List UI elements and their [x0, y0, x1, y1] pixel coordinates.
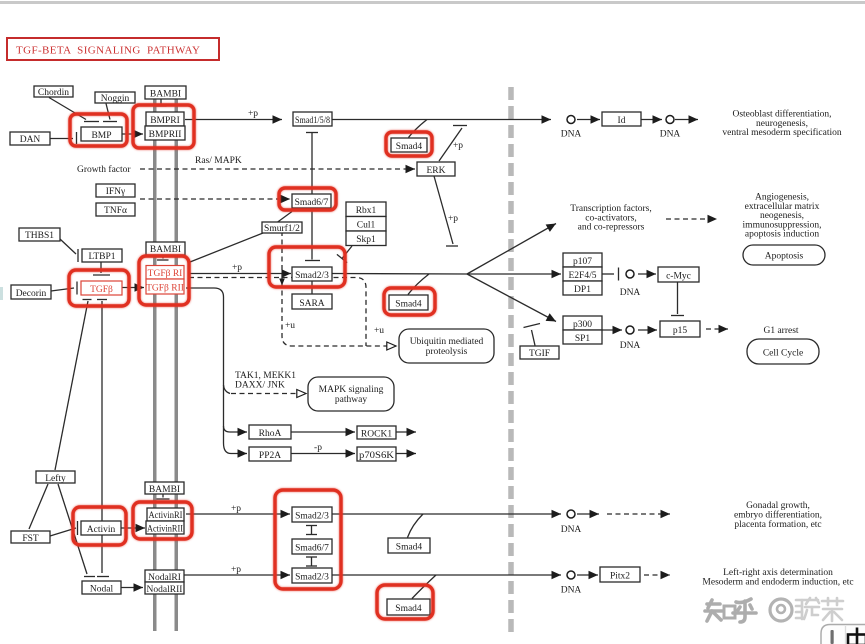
svg-text:Noggin: Noggin: [101, 94, 130, 104]
T-bar FST to Activin: [50, 528, 76, 536]
curve Smad4 joins gonadal wire: [408, 514, 424, 538]
gene LTBP1: [82, 249, 122, 262]
top gray rule: [0, 1, 865, 4]
wire Smad1/5/8 to DNA: [332, 119, 551, 121]
svg-text:SARA: SARA: [299, 299, 324, 309]
wire BMP to BMPRII: [122, 133, 143, 135]
svg-text:pathway: pathway: [335, 395, 367, 405]
watermark at sign: [770, 599, 792, 621]
svg-text:Rbx1: Rbx1: [356, 206, 377, 216]
dashed TAK1 to MAPK pathway: [231, 393, 306, 395]
svg-text:Lefty: Lefty: [45, 473, 66, 484]
gene Smurf1/2: [262, 222, 302, 233]
svg-text:p15: p15: [673, 326, 688, 336]
svg-text:p300: p300: [573, 320, 592, 330]
gene Activin: [81, 521, 121, 535]
gene Smad4 top: [391, 138, 427, 152]
dashed IFN/TNF to Smad6/7: [140, 198, 290, 200]
wire fan to E2F4/5: [467, 273, 561, 275]
gene THBS1: [19, 228, 60, 241]
wire TGFb down to Nodal T-bar: [101, 301, 103, 573]
svg-text:-p: -p: [314, 443, 322, 453]
DNA circle 1: [567, 116, 575, 124]
highlight box TGFbRI/RII: [139, 256, 189, 305]
gene Smad6/7 lower: [292, 539, 332, 554]
watermark zhi char: [705, 600, 735, 621]
svg-text:TGFβ RI: TGFβ RI: [148, 269, 183, 279]
dashed arrow after Pitx2: [644, 574, 670, 576]
T-bar BAMBI top stub: [160, 99, 162, 105]
T-bar LTBP1 to TGFb: [100, 262, 102, 273]
highlight box Smad2/3 mid: [269, 247, 345, 287]
svg-text:Mesoderm and endoderm inductio: Mesoderm and endoderm induction, etc: [702, 578, 853, 588]
gene NodalRII: [145, 582, 184, 594]
svg-text:Smad4: Smad4: [396, 142, 423, 152]
svg-text:p107: p107: [573, 257, 592, 267]
wire DNA to c-Myc: [638, 273, 656, 275]
svg-text:TGIF: TGIF: [529, 349, 550, 359]
branch to RhoA: [224, 426, 238, 432]
gene E2F4/5: [563, 267, 602, 281]
wire DNA out gonadal: [577, 513, 599, 515]
svg-text:Smad6/7: Smad6/7: [295, 544, 329, 554]
svg-text:DP1: DP1: [574, 285, 591, 295]
svg-text:Smad4: Smad4: [396, 543, 423, 553]
svg-text:E2F4/5: E2F4/5: [569, 271, 597, 281]
title box TGF-BETA SIGNALING PATHWAY: [7, 38, 219, 60]
svg-text:DNA: DNA: [620, 288, 641, 298]
gene Smad2/3 lower2: [292, 568, 332, 583]
svg-text:+p: +p: [448, 214, 458, 224]
wire Id to DNA: [641, 119, 662, 121]
gene BMP: [81, 127, 122, 141]
gene BAMBI bottom: [145, 482, 184, 494]
svg-text:+u: +u: [374, 326, 384, 336]
faint edge mark: [0, 287, 3, 300]
svg-text:Smad1/5/8: Smad1/5/8: [295, 116, 330, 126]
T-bar BAMBI bottom stub: [162, 494, 164, 498]
svg-text:MAPK signaling: MAPK signaling: [319, 385, 384, 395]
pathway box Apoptosis: [743, 245, 825, 265]
svg-text:Smad4: Smad4: [395, 300, 422, 310]
arrow into RhoA: [237, 431, 247, 433]
gene ERK: [417, 162, 455, 176]
svg-text:ROCK1: ROCK1: [361, 430, 392, 440]
gene Smad2/3 lower1: [292, 507, 332, 522]
trunk TGFbRII down to RhoA/PP2A: [186, 288, 237, 454]
svg-text:TNFα: TNFα: [104, 206, 127, 216]
svg-text:+p: +p: [232, 263, 242, 273]
pathway box Ubiquitin mediated proteolysis: [399, 329, 494, 363]
T-bar ERK down inhibition: [434, 176, 453, 244]
wire Smurf1/2 to receptor complex: [190, 233, 263, 262]
svg-text:c-Myc: c-Myc: [666, 272, 691, 282]
svg-text:Decorin: Decorin: [16, 289, 47, 299]
T-bar THBS1 to LTBP1: [60, 239, 76, 254]
svg-text:TGFβ RII: TGFβ RII: [146, 284, 184, 294]
T-bar DAN to BMP: [50, 138, 73, 140]
ime panel: [821, 625, 865, 644]
svg-text:BMPRI: BMPRI: [150, 116, 180, 126]
gene p300: [563, 316, 602, 330]
cell membrane bar 2: [175, 86, 179, 631]
highlight box Smad4 mid: [384, 288, 435, 315]
svg-text:Skp1: Skp1: [356, 235, 376, 245]
svg-text:BMPRII: BMPRII: [149, 130, 182, 140]
curve Smad4 joins Smad1/5/8 wire: [409, 120, 428, 138]
gene p107: [563, 253, 602, 267]
svg-text:Chordin: Chordin: [38, 88, 69, 98]
wire ActivinRI to Smad2/3 +p: [186, 513, 290, 515]
gene p70S6K: [357, 447, 396, 461]
svg-text:SP1: SP1: [575, 334, 591, 344]
svg-text:+u: +u: [285, 321, 295, 331]
svg-text:ERK: ERK: [427, 166, 446, 176]
svg-text:+p: +p: [231, 565, 241, 575]
T-bar Decorin to TGFb: [51, 288, 74, 291]
gene TGFbRII red: [146, 279, 184, 294]
T-bar TGIF to p300: [532, 330, 536, 346]
wire TGFb down to Lefty: [55, 301, 88, 470]
highlight box Activin: [73, 507, 126, 545]
svg-text:+p: +p: [453, 141, 463, 151]
wire Smad2/3 to DNA nodal: [332, 574, 561, 576]
nuclear membrane dashed bar: [508, 87, 514, 638]
dashed p15 to G1 arrest: [706, 328, 728, 330]
T-bar Smad6/7 to Smad2/3: [311, 209, 313, 260]
ime zhong char: [848, 628, 865, 644]
svg-text:TGF-BETA SIGNALING PATHWAY: TGF-BETA SIGNALING PATHWAY: [16, 45, 200, 57]
highlight box BMPRI/BMPRII: [133, 105, 194, 148]
dashed transcription factors to angiogenesis: [666, 218, 717, 220]
gene BMPRII: [145, 126, 185, 140]
svg-text:THBS1: THBS1: [25, 231, 54, 241]
gene DAN: [10, 132, 50, 145]
svg-text:DNA: DNA: [561, 130, 582, 140]
pathway box Cell Cycle: [747, 339, 819, 364]
gene SARA: [292, 294, 332, 309]
svg-text:PP2A: PP2A: [259, 451, 281, 461]
gene Smad4 bottom: [387, 599, 430, 615]
T-bars above Nodal: [84, 576, 95, 578]
wire Lefty to FST: [29, 484, 48, 529]
svg-text:+p: +p: [231, 504, 241, 514]
svg-text:+p: +p: [248, 109, 258, 119]
highlight box TGFb: [69, 270, 129, 306]
gene c-Myc: [658, 267, 699, 282]
gene Noggin: [95, 92, 135, 103]
svg-text:TGFβ: TGFβ: [90, 285, 113, 295]
svg-text:ActivinRI: ActivinRI: [149, 511, 183, 521]
gene DP1: [563, 281, 602, 295]
gene NodalRI: [145, 570, 184, 582]
I-beam Smad2/3 Smad6/7 upper: [306, 525, 317, 527]
svg-text:Smurf1/2: Smurf1/2: [264, 223, 300, 234]
svg-text:Smad2/3: Smad2/3: [295, 573, 329, 583]
dashed degradation loop to ubiquitin: [282, 231, 396, 346]
svg-text:Ubiquitin mediated: Ubiquitin mediated: [410, 337, 484, 347]
gene ActivinRII: [146, 521, 184, 534]
gene Cul1: [346, 217, 386, 232]
svg-text:FST: FST: [22, 534, 39, 544]
gene ROCK1: [357, 426, 396, 439]
gene ActivinRI: [147, 508, 184, 521]
gene IFNy: [96, 184, 135, 197]
svg-text:IFNγ: IFNγ: [106, 187, 126, 197]
svg-text:and co-repressors: and co-repressors: [578, 223, 645, 233]
watermark cai char: [822, 598, 843, 621]
gene Id: [602, 112, 641, 126]
wire Smurf1/2 to Smad6/7: [277, 212, 292, 223]
dashed arrow gonadal: [607, 513, 670, 515]
gene Lefty: [36, 471, 75, 483]
wire DNA out: [675, 119, 698, 121]
wire Smad2/3 to SARA: [311, 281, 313, 294]
wire Smad2/3 to DNA gonadal: [332, 513, 561, 515]
svg-text:Smad4: Smad4: [395, 604, 422, 614]
svg-text:Cul1: Cul1: [357, 221, 376, 231]
gene Chordin: [34, 86, 73, 97]
svg-text:Ras/ MAPK: Ras/ MAPK: [195, 156, 242, 166]
gene Smad6/7: [292, 194, 331, 208]
gene Rbx1: [346, 202, 386, 217]
svg-text:RhoA: RhoA: [259, 429, 282, 439]
svg-text:Left-right axis determination: Left-right axis determination: [723, 567, 833, 578]
svg-text:Smad2/3: Smad2/3: [295, 271, 329, 281]
gene Smad1/5/8: [293, 112, 332, 126]
svg-text:G1 arrest: G1 arrest: [763, 326, 798, 336]
svg-text:DNA: DNA: [620, 341, 641, 351]
wire fan to p300: [467, 274, 556, 322]
wire Smad2/3 to fan point: [332, 273, 467, 276]
hook to TAK1 dashed: [224, 385, 231, 394]
DNA circle 6: [567, 571, 575, 579]
svg-text:apoptosis induction: apoptosis induction: [745, 230, 819, 240]
T-bar Noggin to BMP: [106, 104, 110, 120]
T-bar BAMBI mid stub: [162, 255, 164, 259]
svg-text:NodalRII: NodalRII: [147, 585, 183, 595]
DNA circle 2: [666, 116, 674, 124]
svg-text:DNA: DNA: [660, 130, 681, 140]
T-bar c-Myc to p15: [677, 282, 679, 314]
gene Skp1: [346, 231, 386, 246]
gene p15: [660, 321, 700, 337]
svg-text:proteolysis: proteolysis: [426, 347, 468, 357]
highlight box Smad4 bottom: [377, 585, 433, 619]
svg-text:DNA: DNA: [561, 525, 582, 535]
DNA circle 3: [626, 270, 634, 278]
gene FST: [11, 531, 50, 543]
wire DNA to p15: [638, 329, 657, 331]
gene TGIF: [520, 346, 559, 359]
dashed degradation loop top: [189, 278, 366, 347]
svg-text:DAXX/ JNK: DAXX/ JNK: [235, 381, 285, 391]
wire DNA to Pitx2: [577, 574, 598, 576]
svg-text:Gonadal growth,: Gonadal growth,: [746, 501, 810, 511]
svg-text:Smad2/3: Smad2/3: [295, 512, 329, 522]
wire BMPRI to Smad1/5/8 with +p arrow: [185, 119, 282, 121]
pathway box MAPK signaling pathway: [308, 377, 394, 411]
svg-text:TAK1, MEKK1: TAK1, MEKK1: [235, 371, 296, 381]
arrow p70S6K out: [396, 453, 416, 455]
small arrow on dashed loop: [279, 279, 285, 286]
curve Smad4 joins nodal wire: [412, 575, 436, 599]
svg-text:Growth factor: Growth factor: [77, 164, 131, 175]
svg-text:BAMBI: BAMBI: [150, 245, 181, 255]
highlight box Smad4 top: [386, 132, 432, 156]
svg-text:BAMBI: BAMBI: [150, 90, 181, 100]
gene BAMBI mid: [146, 242, 185, 255]
wire fan to transcription factors: [467, 224, 556, 275]
wire Lefty to Nodal T-bar: [58, 484, 87, 574]
T-bar Chordin to BMP: [49, 98, 86, 120]
svg-text:placenta formation, etc: placenta formation, etc: [734, 519, 821, 530]
T-bar ERK up inhibition: [439, 128, 462, 161]
T-bar Smad6/7 to Smad1/5/8: [306, 132, 318, 134]
svg-text:DAN: DAN: [20, 135, 41, 145]
wire Activin to ActivinRII: [121, 527, 145, 529]
wire RhoA to ROCK1: [291, 431, 355, 433]
watermark hu char: [733, 599, 756, 622]
T-bar stubs below TGFb: [83, 299, 92, 301]
gene PP2A: [249, 447, 291, 461]
T-bar E2F4/5 to DNA: [602, 273, 614, 275]
svg-text:BMP: BMP: [91, 131, 111, 141]
svg-text:BAMBI: BAMBI: [149, 485, 180, 495]
gene SP1: [563, 330, 602, 344]
ime separator: [845, 626, 847, 644]
svg-text:ventral mesoderm specification: ventral mesoderm specification: [722, 127, 841, 138]
svg-text:Nodal: Nodal: [90, 585, 114, 595]
svg-text:Cell Cycle: Cell Cycle: [763, 349, 803, 359]
svg-text:ActivinRII: ActivinRII: [147, 525, 183, 535]
gene BMPRI: [146, 112, 184, 126]
gene Smad4 mid: [389, 295, 428, 310]
arrow ROCK1 out: [396, 431, 416, 433]
gene Smad2/3 mid: [292, 267, 332, 281]
cell membrane bar 1: [153, 86, 157, 631]
gene Nodal: [82, 581, 121, 594]
svg-text:Apoptosis: Apoptosis: [765, 252, 804, 262]
T-bar Skp1 to Smad2/3: [342, 246, 352, 259]
wire NodalRI to Smad2/3 +p: [184, 574, 290, 576]
svg-text:Pitx2: Pitx2: [610, 572, 630, 582]
svg-text:Smad6/7: Smad6/7: [295, 198, 329, 208]
wire SP1 to DNA: [602, 329, 622, 331]
svg-text:embryo differentiation,: embryo differentiation,: [734, 510, 822, 521]
gene BAMBI top: [145, 86, 186, 99]
svg-text:p70S6K: p70S6K: [359, 451, 394, 461]
gene TNFa: [96, 203, 135, 216]
gene TGFb red: [81, 281, 122, 295]
DNA circle 4: [626, 326, 634, 334]
gene Pitx2: [600, 567, 640, 582]
wire TGFb to TGFbRII arrow: [122, 287, 144, 289]
DNA circle 5: [567, 510, 575, 518]
svg-text:Activin: Activin: [87, 525, 116, 535]
highlight box BMP: [70, 114, 127, 146]
ime cursor bar: [831, 630, 834, 644]
svg-text:LTBP1: LTBP1: [88, 252, 115, 262]
curve Smad4 joins Smad2/3 wire: [408, 274, 429, 295]
wire TGFbRI to Smad2/3 with +p arrow: [189, 273, 291, 275]
watermark suan char: [796, 598, 819, 619]
wire DNA to Id: [577, 119, 600, 121]
gene Smad4 gonadal: [388, 538, 430, 553]
highlight box Smad complex lower: [275, 490, 341, 589]
gene RhoA: [249, 425, 291, 439]
wire Nodal to NodalRII: [121, 587, 143, 589]
dashed Ras/MAPK to ERK: [140, 168, 415, 170]
I-beam Smad6/7 Smad2/3 lower: [306, 556, 317, 558]
highlight box Smad6/7: [279, 188, 336, 210]
highlight box ActivinRI/RII: [133, 502, 192, 539]
svg-text:Id: Id: [618, 116, 626, 126]
svg-text:DNA: DNA: [561, 586, 582, 596]
gene Decorin: [11, 285, 51, 299]
wire PP2A to p70S6K with -p: [291, 453, 355, 455]
gene TGFbRI red: [146, 266, 184, 280]
